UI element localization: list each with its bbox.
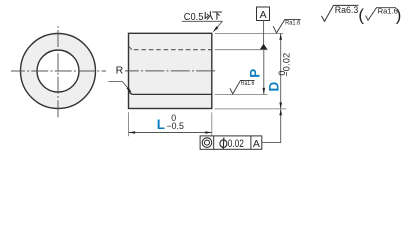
front view horizontal center line bbox=[11, 70, 106, 72]
L dimension line bbox=[129, 132, 212, 134]
front view ring fill bbox=[21, 34, 96, 109]
front view vertical center line bbox=[57, 26, 59, 119]
L extension line left bbox=[128, 112, 130, 136]
bore bottom edge with fillet R bbox=[129, 90, 212, 94]
note leader bbox=[213, 21, 222, 32]
svg-text:0.02: 0.02 bbox=[228, 138, 244, 150]
front view inner circle (bore) bbox=[37, 50, 79, 92]
svg-text:A: A bbox=[260, 9, 267, 21]
feature control frame divider 2 bbox=[250, 136, 252, 149]
datum A frame bbox=[257, 7, 270, 21]
bore chamfer tick bbox=[129, 47, 132, 50]
svg-text:(: ( bbox=[358, 5, 364, 24]
concentricity symbol bbox=[202, 138, 212, 148]
kanji 以 bbox=[205, 12, 212, 20]
kanji 下 bbox=[213, 12, 222, 19]
D dimension bottom arrowhead bbox=[279, 102, 282, 109]
general surface note: small check Ra1.6 bbox=[366, 7, 398, 21]
P dimension line bbox=[263, 50, 265, 95]
svg-text:0: 0 bbox=[277, 71, 287, 76]
L dimension right arrowhead bbox=[205, 131, 212, 134]
side view center line bbox=[125, 70, 217, 72]
D dimension line bbox=[280, 33, 282, 109]
bore hidden line bbox=[134, 49, 212, 51]
extension line of bore hidden line bbox=[215, 49, 268, 51]
D dimension top arrowhead bbox=[279, 33, 282, 40]
side view body bbox=[129, 33, 212, 108]
extension line of bottom edge bbox=[215, 108, 287, 110]
svg-text:Ra6.3: Ra6.3 bbox=[335, 5, 359, 15]
front view outer circle bbox=[21, 34, 96, 109]
svg-text:−0.5: −0.5 bbox=[167, 121, 184, 131]
extension line of bore bottom line bbox=[215, 93, 268, 95]
feature control frame box bbox=[200, 136, 262, 149]
R leader bbox=[108, 82, 130, 92]
svg-text:D: D bbox=[266, 81, 281, 91]
svg-text:P: P bbox=[248, 69, 263, 78]
R leader arrowhead bbox=[127, 87, 132, 93]
svg-text:Ra1.6: Ra1.6 bbox=[241, 80, 255, 87]
surface finish symbol Ra1.6 on top edge bbox=[273, 19, 301, 33]
svg-text:L: L bbox=[157, 117, 165, 132]
L extension line right bbox=[211, 112, 213, 136]
fcf leader bbox=[262, 110, 281, 143]
note leader arrowhead bbox=[213, 26, 219, 32]
fcf leader arrowhead bbox=[279, 109, 282, 116]
D tolerance bbox=[277, 53, 291, 77]
datum leader bbox=[263, 21, 265, 45]
general surface note: big check Ra6.3 bbox=[322, 5, 359, 22]
svg-text:Ra1.6: Ra1.6 bbox=[285, 20, 301, 27]
tolerance value bbox=[220, 140, 227, 148]
P dimension bottom arrowhead bbox=[263, 88, 266, 95]
svg-text:A: A bbox=[253, 138, 260, 150]
svg-text:): ) bbox=[396, 5, 402, 24]
surface finish symbol Ra1.6 on bore bottom line bbox=[230, 80, 255, 94]
datum filled triangle bbox=[260, 44, 267, 50]
feature control frame divider 1 bbox=[213, 136, 215, 149]
svg-text:R: R bbox=[116, 65, 124, 77]
note underline bbox=[182, 20, 223, 22]
extension line of top edge bbox=[215, 32, 284, 34]
L dimension left arrowhead bbox=[129, 131, 136, 134]
